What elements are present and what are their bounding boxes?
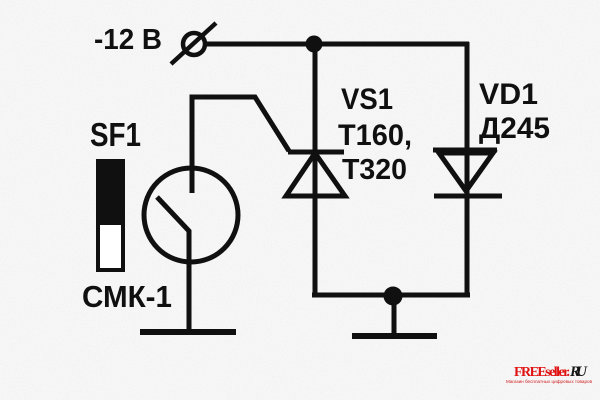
watermark logo FREEseller.RU	[514, 364, 588, 380]
thyristor VS1	[286, 152, 345, 196]
wire: top rail from terminal to VD1 branch	[206, 42, 469, 47]
diode VD1	[433, 150, 502, 196]
svg-text:Д245: Д245	[479, 112, 550, 145]
label VS1	[341, 83, 393, 116]
svg-text:СМК-1: СМК-1	[82, 279, 172, 314]
value label CMK-1	[82, 279, 172, 314]
label VD1	[479, 78, 538, 111]
breaker SF1 symbol	[96, 159, 125, 270]
wire: top rail corner down to VD1 anode	[465, 42, 470, 297]
reed switch SA1 (CMK-1) body	[144, 168, 238, 262]
node: bottom junction	[384, 287, 403, 306]
wire: bottom junction to ground	[392, 296, 397, 336]
ground (left)	[140, 329, 236, 335]
terminal X1 (-12 V input)	[171, 23, 216, 64]
value label Д245	[479, 112, 550, 145]
wire: top junction down to VS1 cathode	[313, 44, 318, 297]
svg-text:Магазин бесплатных цифровых то: Магазин бесплатных цифровых товаров	[506, 379, 593, 384]
svg-text:SF1: SF1	[90, 116, 141, 153]
node: top junction	[306, 36, 323, 53]
svg-text:FREEseller.: FREEseller.	[514, 365, 570, 380]
svg-text:-12 В: -12 В	[94, 24, 162, 56]
svg-text:RU: RU	[569, 364, 588, 380]
wire: bottom rail	[312, 293, 470, 298]
svg-text:VD1: VD1	[479, 78, 538, 111]
svg-text:Т160,: Т160,	[338, 119, 412, 152]
svg-text:VS1: VS1	[341, 83, 393, 116]
wire: reed switch to VS1 gate	[192, 97, 289, 193]
reed switch blade	[157, 197, 189, 332]
value label T160,	[338, 119, 412, 152]
watermark tagline	[506, 379, 593, 384]
value label T320	[342, 154, 407, 186]
ground (right)	[352, 333, 437, 339]
net label -12 V	[94, 24, 162, 56]
label SF1	[90, 116, 141, 153]
svg-text:Т320: Т320	[342, 154, 407, 186]
